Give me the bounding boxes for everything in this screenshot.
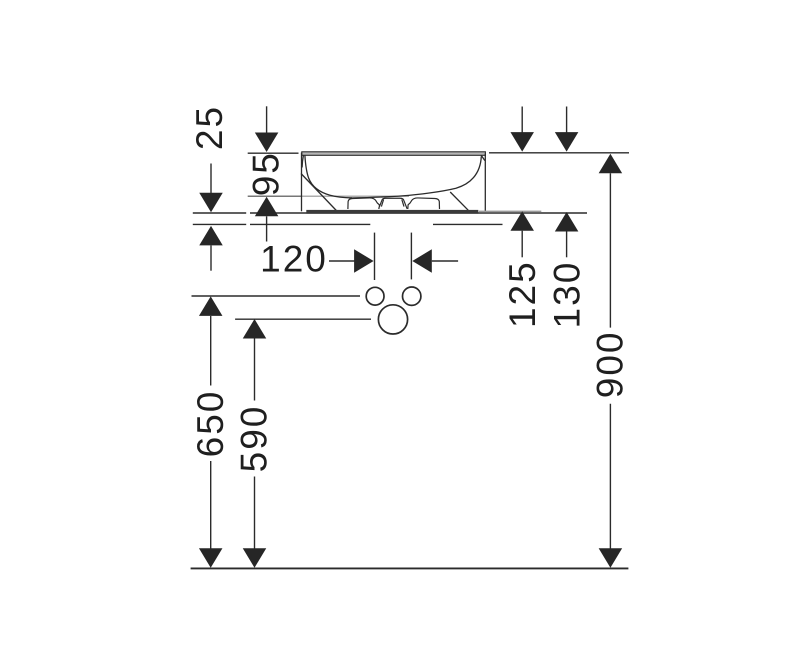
washbasin right outer edge — [484, 154, 486, 212]
svg-text:650: 650 — [190, 390, 231, 458]
drain center pedestal — [379, 198, 408, 209]
basin bottom extension line (outer part) — [248, 195, 301, 197]
washbasin left taper diagonal — [301, 174, 337, 212]
faucet hole large — [378, 305, 407, 334]
washbasin body — [301, 152, 485, 212]
hole-level extension line 650 — [192, 295, 361, 297]
washbasin interior right curve — [351, 156, 482, 198]
svg-text:120: 120 — [260, 239, 328, 280]
dimension 130 — [547, 107, 588, 329]
svg-text:25: 25 — [189, 105, 230, 150]
countertop top line — [193, 212, 587, 214]
washbasin right taper diagonal — [450, 192, 468, 210]
faucet hole small right — [403, 287, 421, 305]
basin bottom extension line (inner gray part) — [301, 195, 409, 197]
svg-text:900: 900 — [590, 331, 631, 399]
washbasin rim band — [302, 152, 486, 156]
drain right mound — [408, 198, 440, 209]
dimension 900 — [590, 154, 631, 568]
drain left mound — [348, 198, 380, 209]
faucet hole small left — [366, 287, 384, 305]
svg-text:95: 95 — [246, 151, 287, 196]
svg-text:590: 590 — [234, 405, 275, 473]
countertop gray edge strip — [479, 211, 542, 213]
washbasin interior left curve — [305, 155, 352, 198]
dimension 120 — [260, 233, 458, 280]
dimension 95 — [246, 106, 287, 241]
svg-text:125: 125 — [502, 260, 543, 328]
dimension 650 — [190, 296, 231, 567]
dimension 590 — [234, 319, 275, 568]
dimension 125 — [502, 107, 543, 329]
hole-level extension line 590 — [235, 318, 371, 320]
dimension 25 — [189, 105, 230, 271]
washbasin left outer edge — [301, 153, 303, 212]
washbasin left inner lip — [302, 155, 303, 167]
washbasin base bar — [306, 210, 478, 214]
rim top extension line right — [489, 152, 629, 154]
rim top extension line left — [248, 152, 299, 154]
countertop bottom line — [193, 223, 503, 225]
washbasin right inner lip — [481, 155, 485, 160]
floor line — [191, 567, 629, 569]
svg-text:130: 130 — [547, 261, 588, 329]
